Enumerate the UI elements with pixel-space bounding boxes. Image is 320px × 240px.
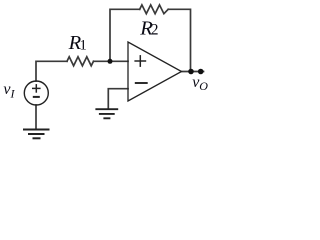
- wire R2 to output node: [168, 9, 190, 71]
- svg-text:R1: R1: [68, 32, 87, 54]
- ground at inverting input: [95, 109, 118, 118]
- wire R1 to op-amp + input: [94, 60, 129, 62]
- resistor R1: [67, 57, 94, 66]
- wire op-amp output: [182, 71, 204, 73]
- resistor R2: [140, 5, 169, 14]
- svg-text:vI: vI: [3, 81, 15, 101]
- wire source bottom to ground: [35, 105, 37, 129]
- node junction at R1/feedback: [108, 59, 113, 64]
- op-amp U1: [128, 42, 182, 101]
- wire feedback vertical and top run: [110, 9, 140, 61]
- node output B: [198, 69, 204, 75]
- voltage source v_I: [24, 81, 48, 105]
- wire inverting input to ground: [108, 89, 128, 109]
- svg-text:vO: vO: [192, 74, 208, 93]
- ground below source: [23, 130, 50, 139]
- svg-text:R2: R2: [139, 18, 158, 40]
- wire source-top to R1: [36, 61, 67, 81]
- node output A: [188, 69, 194, 75]
